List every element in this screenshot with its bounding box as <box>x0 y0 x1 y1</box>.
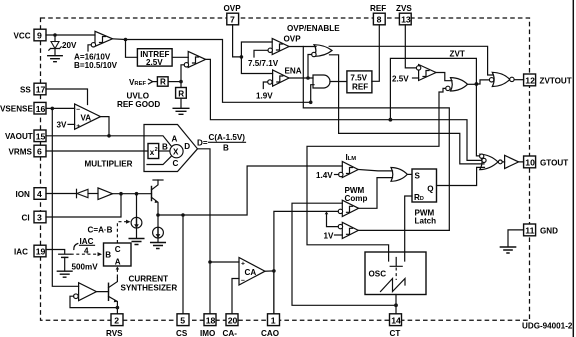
wire pin13 to ZVT comp <box>405 25 416 68</box>
svg-text:IAC: IAC <box>14 247 28 256</box>
wire GND pin to ground <box>508 230 524 247</box>
svg-text:CA: CA <box>245 268 257 277</box>
svg-text:VAOUT: VAOUT <box>5 132 33 141</box>
svg-text:RVS: RVS <box>106 329 123 337</box>
label VREF <box>129 78 157 87</box>
node uvlo bus tap <box>389 118 393 122</box>
svg-text:17: 17 <box>36 85 46 95</box>
svg-text:REF: REF <box>352 82 368 91</box>
wire pwm-in arrow to 1V comp <box>325 211 339 226</box>
wire OSC to CT pin <box>395 295 397 314</box>
transistor Q2 <box>96 278 117 314</box>
wire AND output to 7.5V REF <box>330 81 347 83</box>
wire multiplier D to IMO <box>198 149 211 314</box>
svg-text:C: C <box>115 245 121 254</box>
wire osc clock to ZVT OR bubble <box>307 88 446 261</box>
svg-text:CT: CT <box>390 329 401 337</box>
node ENA branch <box>306 76 310 80</box>
svg-text:GND: GND <box>540 226 558 235</box>
wire vcc-good long bus <box>303 47 449 231</box>
pin 17 SS <box>20 83 46 95</box>
svg-text:9: 9 <box>37 31 42 41</box>
label CURRENT SYNTHESIZER <box>121 274 178 292</box>
comparator UVLO ref-good <box>181 51 206 87</box>
svg-text:CAO: CAO <box>261 329 279 337</box>
wire CS pin up <box>182 215 184 314</box>
wire SS to VA <box>46 89 88 105</box>
wire INTREF to UVLO comp <box>172 56 188 58</box>
svg-text:8: 8 <box>377 15 382 25</box>
svg-text:1: 1 <box>271 315 276 325</box>
wire OR to S <box>407 173 412 175</box>
svg-text:ZVS: ZVS <box>396 4 412 13</box>
current source C=A.B <box>131 194 142 239</box>
node IMO-CA tap <box>208 260 212 264</box>
svg-text:SS: SS <box>20 85 31 94</box>
pin 12 ZVTOUT <box>524 74 572 86</box>
svg-text:SYNTHESIZER: SYNTHESIZER <box>121 283 178 292</box>
node CT junction <box>394 303 398 307</box>
pin 10 GTOUT <box>524 156 569 168</box>
svg-text:VRMS: VRMS <box>9 147 33 156</box>
svg-text:6: 6 <box>37 147 42 157</box>
pin 2 RVS <box>106 314 123 337</box>
wire uvlo branch over ZVT <box>390 58 481 155</box>
svg-text:Q: Q <box>427 184 433 193</box>
op-amp CA <box>239 258 265 286</box>
svg-text:+: + <box>76 123 80 130</box>
ground below source1 <box>129 239 144 245</box>
transistor Q1 <box>152 180 164 215</box>
wire CA output to CAO <box>265 271 274 314</box>
svg-text:12: 12 <box>525 76 535 86</box>
multiplier inner A path <box>144 136 171 146</box>
node intref tap <box>124 38 128 42</box>
svg-text:7: 7 <box>230 15 235 25</box>
svg-text:A: A <box>172 134 178 143</box>
block squarer x2 <box>148 144 159 159</box>
node CS tap <box>181 213 185 217</box>
node pin7 junction <box>240 55 244 59</box>
svg-text:ZVTOUT: ZVTOUT <box>540 76 572 85</box>
wire VA output to VAOUT <box>101 117 110 136</box>
svg-text:−: − <box>241 277 245 284</box>
wire 1V comp output <box>358 229 449 231</box>
wire IAC pin <box>46 250 65 254</box>
wire vsense down to synthesizer <box>52 108 78 286</box>
wire to OVP comp input <box>241 42 272 74</box>
border dashed outline <box>41 18 530 320</box>
wire pin7 down <box>233 25 242 57</box>
svg-text:S: S <box>415 171 421 180</box>
svg-text:R: R <box>178 89 184 98</box>
svg-text:1V: 1V <box>324 231 335 240</box>
svg-text:A: A <box>115 257 121 266</box>
svg-text:10: 10 <box>525 158 535 168</box>
wire Q1 emitter to ILIM <box>158 166 342 215</box>
svg-text:15: 15 <box>36 131 46 141</box>
node R divider <box>179 80 183 84</box>
wire OR lower tap down <box>330 55 485 164</box>
multiplier inner C path <box>147 156 171 164</box>
svg-text:CA-: CA- <box>223 329 238 337</box>
ground below source2 <box>151 243 166 249</box>
svg-text:OSC: OSC <box>369 269 387 278</box>
block 7.5V REF <box>347 71 372 93</box>
osc sawtooth <box>381 279 406 292</box>
wire R to ground <box>180 98 182 108</box>
dashed control to source1 <box>117 220 130 243</box>
gate NOR gtout 4-input <box>480 154 498 170</box>
svg-text:CURRENT: CURRENT <box>129 274 169 283</box>
wire CAO to PWM comp <box>274 211 338 313</box>
node and-gate tap <box>309 101 313 105</box>
multiplier X circle <box>170 145 183 158</box>
comparator UVLO-sense (VCC) <box>88 31 113 51</box>
wire IMO to CA+ <box>210 261 239 263</box>
wire UVLO output bus <box>206 59 482 160</box>
gate AND enable <box>313 75 330 88</box>
wire PWM out to OR <box>359 178 393 209</box>
wire Rd to OSC <box>405 196 412 261</box>
wire ZVT comp out to OR <box>436 73 452 81</box>
svg-text:5: 5 <box>180 315 185 325</box>
pin 11 GND <box>524 224 559 236</box>
svg-text:IMO: IMO <box>200 329 215 337</box>
svg-text:+: + <box>241 260 245 267</box>
svg-text:20: 20 <box>228 315 238 325</box>
wire OR output bus to ZVTOUT nor <box>329 46 493 75</box>
pin 9 VCC <box>14 29 47 41</box>
pin 16 VSENSE <box>0 102 46 114</box>
svg-text:R: R <box>160 78 166 87</box>
pin 1 CAO <box>261 314 280 337</box>
bubble OR lower input <box>312 52 316 56</box>
wire buffer to pin 10 <box>502 161 523 163</box>
wire VRMS to squarer <box>46 150 148 152</box>
pin 20 CA- <box>223 314 239 337</box>
wire Q output to gtout gate <box>437 167 485 185</box>
wire junction to ZVTOUT nor input <box>476 80 489 84</box>
pin 7 OVP <box>224 4 242 25</box>
wire VCC comp output <box>113 39 315 103</box>
svg-text:IAC: IAC <box>80 237 94 246</box>
svg-text:20V: 20V <box>62 41 77 50</box>
node CI tap <box>119 192 123 196</box>
svg-text:B: B <box>223 144 229 153</box>
pin 3 CI <box>22 211 47 223</box>
svg-text:C: C <box>173 159 179 168</box>
block INTREF 2.5V <box>137 49 172 67</box>
dashed collector to A input <box>116 267 120 278</box>
node vaout junction <box>107 134 111 138</box>
gate OR zvt <box>451 78 468 91</box>
svg-text:11: 11 <box>525 226 534 236</box>
wire feedback loop <box>70 296 117 307</box>
svg-text:19: 19 <box>36 247 46 257</box>
svg-text:UDG-94001-2: UDG-94001-2 <box>522 322 573 331</box>
dashed battery to B input <box>71 252 102 256</box>
wire CA- pin up <box>232 279 239 314</box>
pin 19 IAC <box>14 245 46 257</box>
svg-text:7.5/7.1V: 7.5/7.1V <box>248 59 279 68</box>
block synthesizer inputs <box>104 243 132 266</box>
svg-text:ENA: ENA <box>285 67 302 76</box>
pin 15 VAOUT <box>5 130 46 142</box>
svg-text:C(A-1.5V): C(A-1.5V) <box>209 133 246 142</box>
wire NOR to pin 12 <box>514 79 524 81</box>
svg-text:3V: 3V <box>57 121 68 130</box>
svg-text:D: D <box>184 142 190 151</box>
wire OVP comp to OR <box>289 46 316 48</box>
comparator ENA <box>263 67 301 89</box>
svg-text:B: B <box>105 250 111 259</box>
gate NOR zvtout <box>489 72 514 86</box>
ground below zener <box>48 56 62 62</box>
svg-text:2.5V: 2.5V <box>146 58 163 67</box>
buffer synthesizer <box>74 283 97 301</box>
ground below R <box>173 108 189 114</box>
formula D=C(A-1.5V)/B <box>197 133 246 153</box>
svg-text:CS: CS <box>176 329 188 337</box>
svg-text:2.5V: 2.5V <box>392 74 409 83</box>
wire ENA output <box>289 55 313 79</box>
wire CI pin up <box>46 194 121 217</box>
scan artifact edge line <box>572 0 574 337</box>
wire to INTREF <box>126 40 138 58</box>
wire 3V to VA <box>68 123 75 125</box>
wire ILIM out to OR <box>358 170 392 171</box>
latch PWM SR <box>412 169 437 202</box>
svg-text:500mV: 500mV <box>72 262 99 271</box>
svg-text:1.9V: 1.9V <box>256 92 273 101</box>
wire squarer to X <box>159 150 170 152</box>
svg-text:MULTIPLIER: MULTIPLIER <box>85 159 133 168</box>
battery 500mV <box>59 254 99 271</box>
svg-text:1.4V: 1.4V <box>316 171 333 180</box>
svg-text:4: 4 <box>37 189 42 199</box>
ground below battery <box>57 271 72 277</box>
wire buffer to Q1 base <box>113 193 152 195</box>
pin 14 CT <box>390 314 402 337</box>
pin 4 ION <box>16 188 47 200</box>
svg-text:Latch: Latch <box>415 216 437 225</box>
comparator 1V <box>338 222 358 238</box>
node CAO junction <box>272 269 276 273</box>
buffer gtout driver <box>505 155 519 168</box>
svg-text:Comp: Comp <box>345 194 368 203</box>
comparator ZVT 2.5V <box>416 65 436 81</box>
wire ZVT OR output <box>468 83 477 85</box>
svg-text:REF GOOD: REF GOOD <box>117 100 160 109</box>
svg-text:3: 3 <box>37 213 42 223</box>
label PWM Latch <box>415 208 437 225</box>
svg-text:VSENSE: VSENSE <box>0 105 33 114</box>
svg-text:C=A·B: C=A·B <box>88 225 113 234</box>
resistor R lower <box>176 88 187 99</box>
pin 8 REF <box>370 4 386 25</box>
pin 18 IMO <box>200 314 216 337</box>
svg-text:−: − <box>76 107 80 114</box>
buffer ION <box>98 188 113 200</box>
svg-text:X: X <box>173 148 179 157</box>
label IAC/4 <box>74 237 95 256</box>
svg-text:OVP: OVP <box>284 35 302 44</box>
svg-text:13: 13 <box>401 15 411 25</box>
svg-text:REF: REF <box>370 4 386 13</box>
node source tap <box>135 192 139 196</box>
resistor R upper <box>157 77 168 87</box>
gate OR pwm-set <box>391 168 407 182</box>
svg-text:CI: CI <box>22 213 30 222</box>
pin 6 VRMS <box>9 145 47 157</box>
label A=16/10V B=10.5/10V <box>74 53 118 71</box>
wire VCC pin to comparator <box>46 34 95 36</box>
label PWM Comp <box>345 186 368 203</box>
node zener tap <box>53 33 57 37</box>
wire CT ramp to PWM comp <box>292 203 396 305</box>
ground at GND pin <box>500 247 515 253</box>
node vsense tap <box>51 107 55 111</box>
svg-text:2: 2 <box>114 315 119 325</box>
comparator PWM <box>338 200 358 216</box>
svg-text:B: B <box>162 143 168 152</box>
svg-text:D=: D= <box>197 138 208 147</box>
svg-text:18: 18 <box>206 315 216 325</box>
gate OR ovp-enable <box>314 45 332 57</box>
bubble gtout nor output <box>498 160 502 164</box>
node ZVT out junction <box>475 82 479 86</box>
svg-text:OVP/ENABLE: OVP/ENABLE <box>287 24 340 33</box>
pin 13 ZVS <box>396 4 412 25</box>
wire 2.5V to comp <box>413 77 419 79</box>
svg-text:14: 14 <box>391 315 401 325</box>
current source emitter <box>153 215 164 242</box>
multiplier outline <box>144 125 198 172</box>
svg-text:16: 16 <box>36 104 46 114</box>
node emitter junction <box>156 213 160 217</box>
wire ION pin <box>46 193 77 195</box>
svg-text:VCC: VCC <box>14 31 31 40</box>
wire 7.5V REF to pin 8 <box>372 25 379 82</box>
wire VSENSE to VA <box>46 107 75 109</box>
wire 1V to comp <box>335 234 343 236</box>
bubble ZVT OR lower input <box>446 86 450 90</box>
svg-text:B=10.5/10V: B=10.5/10V <box>74 61 118 70</box>
wire R to node <box>168 81 181 83</box>
comparator OVP <box>254 35 301 58</box>
svg-text:VA: VA <box>81 114 92 123</box>
svg-text:ION: ION <box>16 190 31 199</box>
svg-text:7.5V: 7.5V <box>350 73 367 82</box>
node feedback junction <box>116 306 120 310</box>
osc switch contacts <box>389 252 405 280</box>
block OSC <box>365 252 426 295</box>
wire 1.4V to ILIM <box>335 174 339 176</box>
diode ION <box>77 189 99 197</box>
svg-text:2: 2 <box>155 147 158 153</box>
op-amp VA <box>75 104 101 130</box>
zener diode 20V <box>49 35 77 56</box>
pin 5 CS <box>176 314 189 337</box>
svg-text:ZVT: ZVT <box>450 50 465 59</box>
label UVLO REF GOOD <box>117 92 160 110</box>
svg-text:GTOUT: GTOUT <box>540 158 568 167</box>
wire VAOUT to multiplier A <box>46 135 144 137</box>
comparator ILIM <box>339 162 359 178</box>
svg-text:OVP: OVP <box>224 4 242 13</box>
